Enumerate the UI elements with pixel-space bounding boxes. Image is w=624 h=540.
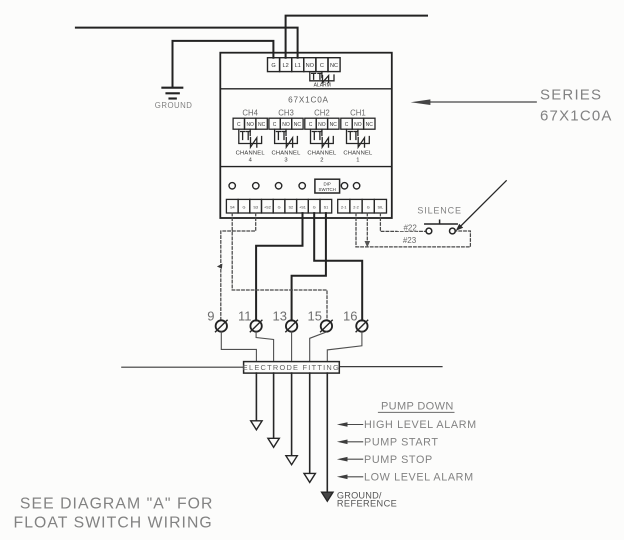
terminal 2-1 bbox=[338, 199, 350, 213]
dashed wire G to silence with arrowhead bbox=[366, 213, 368, 241]
svg-text:LOW LEVEL ALARM: LOW LEVEL ALARM bbox=[364, 472, 474, 484]
silence switch bar bbox=[425, 220, 457, 224]
terminal S4 bbox=[226, 199, 238, 213]
wire G to electrode 16 bbox=[314, 213, 362, 320]
wire electrode 13 to fitting bbox=[291, 332, 293, 362]
pump stop arrow bbox=[345, 458, 363, 460]
svg-text:9: 9 bbox=[207, 309, 214, 324]
terminal C CH3 bbox=[269, 118, 280, 129]
terminal C CH1 bbox=[341, 118, 352, 129]
relay contact symbol CH1 bbox=[347, 129, 370, 147]
svg-text:CHANNEL: CHANNEL bbox=[271, 151, 301, 157]
terminal S2 bbox=[285, 199, 297, 213]
wire +S1 to electrode 11 bbox=[256, 213, 302, 320]
electrode fitting bbox=[243, 362, 340, 374]
svg-text:67X1C0A: 67X1C0A bbox=[288, 95, 329, 104]
svg-text:NC: NC bbox=[366, 122, 374, 128]
svg-text:S3: S3 bbox=[253, 205, 258, 209]
wire electrode 15 to fitting bbox=[310, 332, 327, 362]
terminal NC CH3 bbox=[292, 118, 303, 129]
svg-text:NC: NC bbox=[294, 122, 302, 128]
svg-text:G: G bbox=[367, 205, 370, 209]
dashed wire 2-2 to silence bbox=[355, 213, 357, 247]
dashed wire S3 to electrode 9 bbox=[221, 213, 256, 320]
svg-text:C: C bbox=[273, 122, 277, 128]
svg-text:G: G bbox=[313, 205, 316, 209]
terminal NO CH4 bbox=[245, 118, 256, 129]
terminal SIL bbox=[374, 199, 386, 213]
terminal +S2 bbox=[262, 199, 274, 213]
svg-text:CHANNEL: CHANNEL bbox=[343, 151, 373, 157]
svg-text:2-2: 2-2 bbox=[353, 205, 359, 209]
svg-text:CH2: CH2 bbox=[314, 108, 330, 117]
svg-text:CHANNEL: CHANNEL bbox=[307, 151, 337, 157]
mounting screw circle 4 bbox=[299, 183, 305, 189]
svg-text:PUMP DOWN: PUMP DOWN bbox=[381, 401, 454, 413]
svg-text:13: 13 bbox=[273, 309, 287, 324]
ground bbox=[162, 88, 182, 99]
terminal NC alarm bbox=[328, 58, 340, 72]
svg-text:ALARM: ALARM bbox=[314, 83, 331, 89]
electrode terminal 11 bbox=[250, 320, 262, 332]
svg-text:L1: L1 bbox=[295, 63, 301, 69]
svg-text:NO: NO bbox=[282, 122, 290, 128]
controller box U1 bbox=[220, 53, 391, 218]
svg-text:#23: #23 bbox=[403, 236, 417, 245]
high level alarm arrow bbox=[345, 424, 363, 426]
wire ground to G terminal bbox=[173, 41, 274, 87]
terminal S1 bbox=[320, 199, 332, 213]
terminal G lower 1 bbox=[238, 199, 250, 213]
silence switch actuator arrow bbox=[461, 181, 507, 226]
terminal NO alarm bbox=[304, 58, 316, 72]
svg-text:CHANNEL: CHANNEL bbox=[236, 151, 266, 157]
svg-text:NO: NO bbox=[306, 63, 315, 69]
terminal L2 bbox=[280, 58, 292, 72]
dip switch bbox=[315, 179, 340, 193]
svg-text:SEE DIAGRAM "A" FOR: SEE DIAGRAM "A" FOR bbox=[20, 495, 214, 512]
svg-text:#22: #22 bbox=[403, 224, 417, 233]
svg-text:GROUND: GROUND bbox=[155, 101, 193, 110]
electrode rod 15 bbox=[309, 373, 311, 473]
svg-text:SILENCE: SILENCE bbox=[417, 205, 461, 215]
silence switch contact left bbox=[426, 228, 432, 234]
terminal S3 bbox=[250, 199, 262, 213]
electrode terminal 16 bbox=[356, 320, 368, 332]
terminal NC CH4 bbox=[256, 118, 267, 129]
svg-text:G: G bbox=[271, 63, 275, 69]
terminal 2-2 bbox=[350, 199, 362, 213]
terminal NO CH2 bbox=[316, 118, 327, 129]
svg-text:+S2: +S2 bbox=[264, 205, 271, 209]
relay contact symbol CH3 bbox=[275, 129, 298, 147]
svg-text:PUMP STOP: PUMP STOP bbox=[364, 454, 433, 466]
svg-text:16: 16 bbox=[343, 309, 357, 324]
electrode rod 11 bbox=[273, 373, 275, 438]
svg-text:NC: NC bbox=[330, 122, 338, 128]
pump start arrow bbox=[345, 441, 363, 443]
low level alarm arrow bbox=[345, 476, 363, 478]
svg-text:NO: NO bbox=[318, 122, 326, 128]
terminal NC CH2 bbox=[328, 118, 339, 129]
svg-text:2-1: 2-1 bbox=[341, 205, 347, 209]
electrode terminal 9 bbox=[216, 320, 228, 332]
terminal NO CH3 bbox=[280, 118, 291, 129]
mounting screw circle 2 bbox=[253, 183, 259, 189]
relay contact symbol CH4 bbox=[239, 129, 262, 147]
electrode terminal 15 bbox=[321, 320, 333, 332]
relay contact symbol CH2 bbox=[311, 129, 334, 147]
svg-text:NC: NC bbox=[258, 122, 266, 128]
svg-text:FLOAT SWITCH WIRING: FLOAT SWITCH WIRING bbox=[14, 515, 213, 532]
svg-text:ELECTRODE FITTING: ELECTRODE FITTING bbox=[243, 363, 340, 372]
svg-text:NC: NC bbox=[330, 63, 338, 69]
svg-text:C: C bbox=[309, 122, 313, 128]
terminal G lower 4 bbox=[362, 199, 374, 213]
wire electrode 16 to fitting bbox=[327, 332, 362, 362]
terminal NO CH1 bbox=[352, 118, 363, 129]
mounting screw circle 5 bbox=[341, 183, 347, 189]
terminal G lower 2 bbox=[273, 199, 285, 213]
tank line right bbox=[339, 366, 442, 368]
arrowhead on dashed wire to electrode 9 bbox=[217, 264, 223, 269]
dashed wire #23 run bbox=[356, 231, 470, 247]
terminal G bbox=[268, 58, 280, 72]
terminal NC CH1 bbox=[364, 118, 375, 129]
svg-text:NO: NO bbox=[354, 122, 362, 128]
electrode terminal 13 bbox=[286, 320, 298, 332]
terminal +S1 bbox=[297, 199, 309, 213]
dashed wire #22 run bbox=[380, 213, 426, 231]
svg-text:DIP: DIP bbox=[324, 182, 331, 187]
svg-text:S4: S4 bbox=[230, 205, 235, 209]
svg-text:3: 3 bbox=[284, 157, 287, 163]
silence switch contact right bbox=[450, 228, 456, 234]
wire L1 supply line bbox=[76, 28, 298, 58]
wire electrode 9 to fitting bbox=[221, 332, 256, 362]
series pointer arrow bbox=[429, 101, 536, 103]
svg-text:CH1: CH1 bbox=[350, 108, 366, 117]
svg-text:S1: S1 bbox=[324, 205, 329, 209]
svg-text:L2: L2 bbox=[282, 63, 288, 69]
svg-text:SWITCH: SWITCH bbox=[319, 187, 336, 192]
svg-text:2: 2 bbox=[320, 157, 323, 163]
svg-text:SERIES: SERIES bbox=[540, 86, 602, 103]
svg-text:CH3: CH3 bbox=[278, 108, 294, 117]
alarm relay contact symbol bbox=[310, 72, 334, 83]
box divider 1 bbox=[220, 88, 391, 90]
wire electrode 11 to fitting bbox=[256, 332, 274, 362]
mounting screw circle 3 bbox=[275, 183, 281, 189]
terminal C CH4 bbox=[233, 118, 244, 129]
svg-text:C: C bbox=[320, 63, 324, 69]
svg-text:15: 15 bbox=[308, 309, 322, 324]
svg-text:HIGH LEVEL ALARM: HIGH LEVEL ALARM bbox=[364, 419, 477, 431]
terminal C CH2 bbox=[305, 118, 316, 129]
terminal C alarm bbox=[316, 58, 328, 72]
svg-text:67X1C0A: 67X1C0A bbox=[540, 108, 613, 125]
wire S1 to electrode 13 bbox=[292, 213, 326, 320]
svg-text:G: G bbox=[278, 205, 281, 209]
svg-text:C: C bbox=[345, 122, 349, 128]
tank line left bbox=[122, 366, 244, 368]
svg-text:REFERENCE: REFERENCE bbox=[337, 499, 397, 509]
svg-text:+S1: +S1 bbox=[299, 205, 306, 209]
svg-text:NO: NO bbox=[246, 122, 254, 128]
terminal G lower 3 bbox=[308, 199, 320, 213]
svg-text:PUMP START: PUMP START bbox=[364, 437, 439, 449]
svg-text:G: G bbox=[243, 205, 246, 209]
mounting screw circle 6 bbox=[353, 183, 359, 189]
svg-text:SIL: SIL bbox=[378, 205, 384, 209]
svg-text:S2: S2 bbox=[288, 205, 293, 209]
svg-text:C: C bbox=[237, 122, 241, 128]
wire L2 supply line bbox=[286, 16, 427, 58]
box divider 2 bbox=[220, 166, 391, 168]
electrode rod 13 bbox=[291, 373, 293, 456]
terminal L1 bbox=[292, 58, 304, 72]
dashed wire S4 to electrode 15 bbox=[232, 213, 327, 320]
svg-text:CH4: CH4 bbox=[242, 108, 258, 117]
electrode rod 16 ground reference bbox=[326, 373, 328, 492]
mounting screw circle 1 bbox=[229, 183, 235, 189]
wire number label #22 bbox=[398, 223, 418, 231]
svg-text:1: 1 bbox=[356, 157, 359, 163]
svg-text:11: 11 bbox=[238, 309, 252, 324]
electrode rod 9 bbox=[255, 373, 257, 421]
